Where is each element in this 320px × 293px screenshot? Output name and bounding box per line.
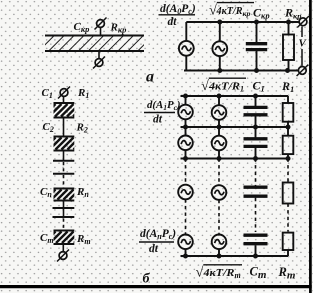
label sqrt(4kT/R_kr) bbox=[209, 3, 254, 19]
wire bbox=[219, 56, 221, 70]
circuit b bus A bbox=[181, 95, 289, 97]
AC source (b row4 right) bbox=[212, 235, 227, 250]
label R_kr (bar) bbox=[110, 22, 127, 35]
dashed wire bbox=[63, 175, 65, 189]
wire bbox=[63, 208, 65, 217]
wire bbox=[63, 202, 65, 209]
wire bbox=[256, 51, 258, 71]
svg-text:dt: dt bbox=[153, 114, 163, 126]
terminal (top of crystal bar) bbox=[95, 18, 107, 30]
wire bbox=[185, 22, 187, 41]
layer block m (Cm Rm) bbox=[44, 231, 86, 245]
page frame right border bbox=[309, 0, 312, 293]
row1: wire bbox=[185, 96, 187, 105]
resistor Rm (b row4) bbox=[283, 233, 294, 250]
junction dots bus C bbox=[183, 156, 291, 161]
capacitor C1 (b row1) bbox=[244, 107, 268, 114]
label R2 (ladder) bbox=[76, 122, 88, 135]
wire bbox=[185, 119, 187, 127]
wire bbox=[185, 150, 187, 158]
terminal (bottom of crystal bar) bbox=[93, 57, 105, 69]
wire bbox=[63, 152, 65, 161]
dashed wire bbox=[287, 204, 289, 232]
label R1 (circuit b) bbox=[281, 79, 294, 94]
svg-text:а: а bbox=[146, 69, 154, 86]
junction dots bus A bbox=[183, 94, 258, 99]
continuation tick bbox=[53, 216, 75, 218]
dashed wire bbox=[218, 200, 220, 235]
wire bbox=[62, 245, 64, 252]
page frame bottom border bbox=[0, 285, 312, 288]
wire bbox=[287, 127, 289, 136]
wire bbox=[287, 154, 289, 158]
junction dots bus B bbox=[183, 125, 291, 130]
AC source (b row2 left) bbox=[178, 136, 193, 151]
capacitor Cm (b row4) bbox=[244, 235, 268, 244]
label Rm (circuit b) bbox=[278, 265, 296, 282]
label sqrt(4kT/Rm) bbox=[196, 265, 243, 281]
AC source (b row1 right) bbox=[212, 105, 227, 120]
dashed wire bbox=[185, 199, 187, 234]
label d(An Pc)/dt fraction (row 4) bbox=[139, 228, 176, 255]
wire bbox=[287, 96, 289, 103]
capacitor C (b row3) bbox=[244, 187, 268, 196]
AC source (circuit a, right) bbox=[212, 41, 227, 56]
dashed wire bbox=[63, 162, 65, 174]
junction dots circuit a top bus bbox=[217, 20, 291, 25]
svg-text:dt: dt bbox=[168, 16, 178, 28]
label C_kr (circuit a) bbox=[253, 6, 270, 21]
wire bbox=[218, 249, 220, 256]
wire bbox=[219, 22, 221, 41]
wire bbox=[255, 245, 257, 256]
dashed wire bbox=[255, 198, 257, 232]
wire bbox=[218, 96, 220, 105]
resistor R_kr (circuit a) bbox=[283, 35, 294, 61]
circuit a bottom bus bbox=[184, 70, 299, 72]
continuation tick bbox=[53, 207, 75, 209]
wire bbox=[185, 56, 187, 71]
wire bbox=[255, 148, 257, 159]
svg-text:dt: dt bbox=[149, 243, 159, 255]
circuit b bus C bbox=[181, 158, 289, 160]
svg-text:√: √ bbox=[201, 79, 209, 94]
label C1 (circuit b) bbox=[253, 79, 265, 94]
wire bbox=[256, 22, 258, 42]
resistor R (b row2) bbox=[283, 136, 294, 154]
output terminal top (circuit a) bbox=[297, 16, 309, 28]
wire terminal to bar bbox=[100, 27, 102, 35]
wire bbox=[288, 22, 290, 35]
wire bbox=[288, 60, 290, 71]
AC source (b row3 right) bbox=[212, 185, 227, 200]
circuit a top bus bbox=[186, 21, 299, 23]
AC source (b row4 left) bbox=[178, 235, 193, 250]
caption a bbox=[146, 69, 154, 86]
dashed wire bbox=[255, 159, 257, 186]
circuit b bottom bus bbox=[181, 255, 289, 257]
label Rm (ladder) bbox=[76, 233, 91, 246]
crystal bar (hatched layer) bbox=[45, 36, 144, 52]
row3: dashed wire bbox=[185, 159, 187, 185]
label Cm (circuit b) bbox=[250, 265, 267, 282]
label R1 (ladder) bbox=[77, 87, 89, 100]
layer block n (Cn Rn) bbox=[46, 189, 86, 201]
V measurement arrow bbox=[299, 27, 308, 66]
AC source (circuit a, left) bbox=[179, 41, 194, 56]
terminal (top of ladder) bbox=[58, 87, 70, 99]
label Cm (ladder) bbox=[40, 232, 54, 245]
label Cn (ladder) bbox=[40, 186, 52, 199]
circuit b bus B bbox=[181, 126, 289, 128]
capacitor C (b row2) bbox=[244, 139, 268, 147]
continuation tick bbox=[53, 173, 74, 175]
wire bbox=[218, 120, 220, 127]
wire bbox=[287, 122, 289, 127]
resistor R (b row3) bbox=[283, 183, 294, 204]
svg-text:б: б bbox=[143, 272, 151, 287]
junction dots circuit a bottom bus bbox=[217, 68, 290, 73]
svg-text:√: √ bbox=[196, 266, 204, 281]
wire bbox=[218, 150, 220, 158]
layer block 2 (C2 R2) bbox=[44, 137, 86, 151]
label C2 (ladder) bbox=[43, 121, 54, 134]
AC source (b row3 left) bbox=[178, 185, 193, 200]
label d(A0 Pc)/dt fraction (circuit a) bbox=[159, 3, 196, 28]
dashed wire bbox=[287, 159, 289, 183]
resistor R1 (b row1) bbox=[283, 103, 294, 122]
svg-text:4кT/R1: 4кT/R1 bbox=[208, 81, 244, 94]
wire bar to bottom terminal bbox=[98, 52, 100, 59]
label R_kr (circuit a) bbox=[284, 6, 302, 21]
capacitor C_kr (circuit a) bbox=[246, 44, 267, 50]
caption b bbox=[143, 272, 151, 287]
wire bbox=[255, 127, 257, 137]
AC source (b row2 right) bbox=[212, 136, 227, 151]
label sqrt(4kT/R1) bbox=[201, 78, 246, 94]
wire bbox=[185, 249, 187, 256]
junction dots bottom bus bbox=[183, 254, 258, 259]
label Rn (ladder) bbox=[76, 186, 89, 199]
wire bbox=[287, 250, 289, 256]
label d(A1 Pc)/dt fraction (row 1) bbox=[144, 99, 181, 126]
label C1 (ladder) bbox=[42, 87, 53, 100]
label C_kr (bar) bbox=[74, 21, 90, 34]
AC source (b row1 left) bbox=[178, 105, 193, 120]
wire bbox=[255, 96, 257, 106]
row2: wire bbox=[185, 127, 187, 136]
dashed wire bbox=[63, 219, 65, 231]
output terminal bottom (circuit a) bbox=[297, 65, 309, 76]
terminal (bottom of ladder) bbox=[57, 250, 69, 262]
dashed wire bbox=[218, 159, 220, 186]
wire bbox=[218, 127, 220, 136]
continuation tick bbox=[53, 160, 74, 162]
wire bbox=[255, 116, 257, 127]
layer block 1 (C1 R1) bbox=[43, 103, 86, 118]
wire bbox=[63, 96, 65, 103]
wire bbox=[63, 119, 65, 137]
